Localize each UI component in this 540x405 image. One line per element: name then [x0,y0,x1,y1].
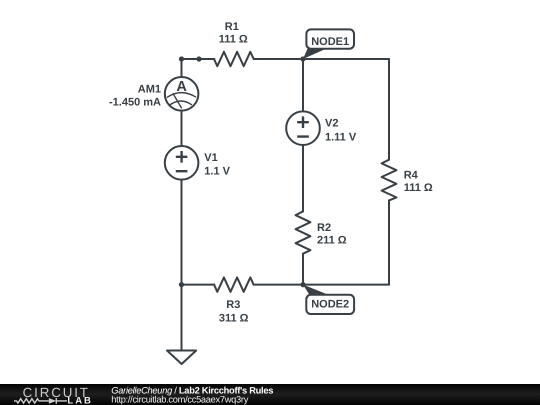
wire R2 to bottom [302,254,304,285]
svg-text:NODE2: NODE2 [311,299,349,311]
svg-text:1.11 V: 1.11 V [325,131,357,143]
svg-text:111 Ω: 111 Ω [219,34,248,46]
svg-text:R1: R1 [225,21,239,33]
junction dot NODE2 [300,282,305,287]
wire V1 to bottom junction [181,180,183,285]
svg-text:R3: R3 [226,299,240,311]
footer bar [0,384,540,405]
svg-text:R2: R2 [317,222,331,234]
wire middle branch top [302,59,304,112]
label AM1 value [109,83,161,108]
resistor R4 [382,160,397,201]
svg-text:V1: V1 [204,152,217,164]
label V1 value [204,152,230,177]
wire endpoint dot [196,56,201,61]
svg-text:http://circuitlab.com/cc5aaex7: http://circuitlab.com/cc5aaex7wq3ry [111,394,248,404]
svg-text:R4: R4 [404,170,419,182]
node NODE2 [303,285,354,314]
svg-text:NODE1: NODE1 [311,36,349,48]
junction dot NODE1 [300,56,305,61]
wire top horizontal right segment [254,58,389,60]
footer logo squiggle resistor and diode [14,398,67,404]
label R4 value [404,170,433,194]
label V2 value [325,118,357,144]
wire right branch lower [388,200,390,284]
svg-text:211 Ω: 211 Ω [317,235,347,247]
node NODE1 [303,29,354,59]
wire V2 to R2 [302,145,304,211]
junction dot bottom-left [179,282,184,287]
svg-text:111 Ω: 111 Ω [404,182,433,194]
wire bottom junction to ground [181,285,183,351]
resistor R1 [214,52,254,66]
label R1 value [219,21,248,46]
svg-text:LAB: LAB [67,396,93,405]
svg-text:AM1: AM1 [138,83,161,95]
wire right branch upper [388,59,390,160]
ground [167,351,196,365]
ammeter AM1 [165,77,199,111]
wire left branch top [181,59,183,77]
voltage source V1 [165,146,199,180]
svg-text:V2: V2 [325,118,338,130]
wire bottom horizontal right segment [254,284,389,286]
wire ammeter to V1 [181,111,183,147]
resistor R3 [214,277,254,291]
wire bottom horizontal left segment [182,284,215,286]
voltage source V2 [286,111,320,145]
junction dot top-left [179,56,184,61]
svg-text:-1.450 mA: -1.450 mA [109,96,161,108]
wire top horizontal left segment [182,58,215,60]
label R3 value [219,299,249,325]
svg-text:311 Ω: 311 Ω [219,313,249,325]
svg-text:1.1 V: 1.1 V [204,166,230,178]
label R2 value [317,222,347,246]
resistor R2 [296,211,311,253]
